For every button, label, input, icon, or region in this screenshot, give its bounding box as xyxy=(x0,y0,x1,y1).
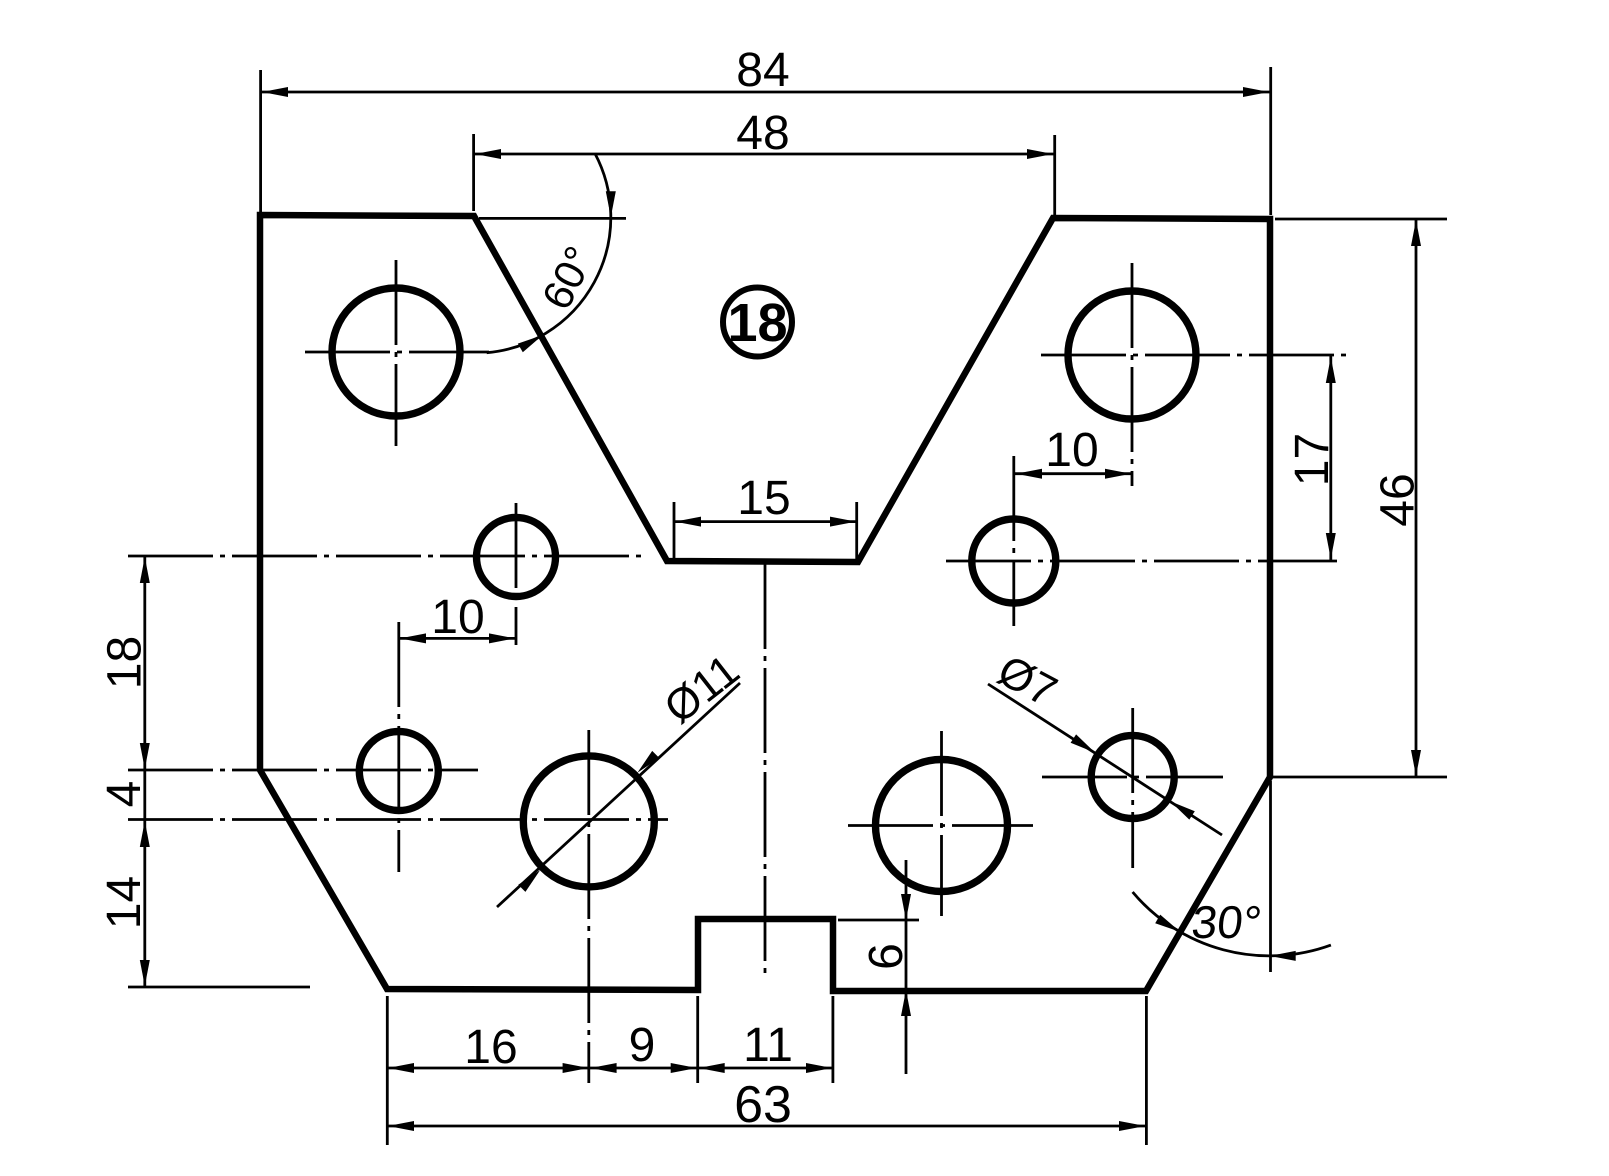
svg-text:6: 6 xyxy=(860,943,913,970)
dimension 48 xyxy=(474,107,1055,215)
dimension 46 right height xyxy=(1270,219,1447,777)
svg-text:9: 9 xyxy=(629,1019,656,1072)
dimension 63 bottom xyxy=(387,996,1146,1145)
dimension 15 V-notch width xyxy=(674,472,857,559)
dimension 6 notch depth xyxy=(838,860,919,1074)
dimension chain 16 / 9 / 11 bottom xyxy=(387,996,833,1145)
hole C1 top-left ø11 xyxy=(305,260,489,446)
svg-text:15: 15 xyxy=(737,472,790,525)
hole C4 right-middle ø7 xyxy=(946,456,1337,626)
svg-text:4: 4 xyxy=(98,781,151,808)
diameter leader ø11 xyxy=(497,645,748,907)
svg-text:18: 18 xyxy=(727,293,787,353)
part number balloon 18 xyxy=(723,288,792,357)
dimension 84 top width xyxy=(261,44,1271,215)
dimension 10 right xyxy=(1015,424,1132,479)
svg-text:63: 63 xyxy=(734,1076,792,1134)
hole C7 center-right ø11 xyxy=(848,731,1033,916)
hole C3 left-middle ø7 xyxy=(128,503,642,645)
svg-text:16: 16 xyxy=(464,1021,517,1074)
hole C2 top-right ø11 xyxy=(1041,263,1348,486)
main vertical centerline xyxy=(764,564,767,975)
angle dimension 60 deg xyxy=(479,153,626,352)
angle dimension 30 deg xyxy=(1133,781,1331,972)
dimension chain 18 / 4 / 14 left xyxy=(98,556,310,987)
part outline xyxy=(260,215,1270,991)
dimension 10 left xyxy=(399,591,516,644)
hole C8 right-lower ø7 xyxy=(1042,708,1223,868)
svg-text:14: 14 xyxy=(98,876,151,929)
diameter leader ø7 xyxy=(988,646,1222,835)
dimension 17 right xyxy=(1286,356,1339,560)
svg-text:84: 84 xyxy=(736,44,789,97)
svg-text:10: 10 xyxy=(1045,424,1098,477)
svg-text:46: 46 xyxy=(1372,473,1425,526)
svg-text:11: 11 xyxy=(743,1019,793,1072)
svg-text:10: 10 xyxy=(431,591,484,644)
svg-text:30°: 30° xyxy=(1189,896,1264,948)
hole C6 center-left ø11 xyxy=(128,730,668,1083)
hole C5 left-lower ø7 xyxy=(128,622,478,872)
svg-text:18: 18 xyxy=(99,636,152,689)
svg-text:48: 48 xyxy=(736,107,789,160)
svg-text:17: 17 xyxy=(1286,433,1339,486)
